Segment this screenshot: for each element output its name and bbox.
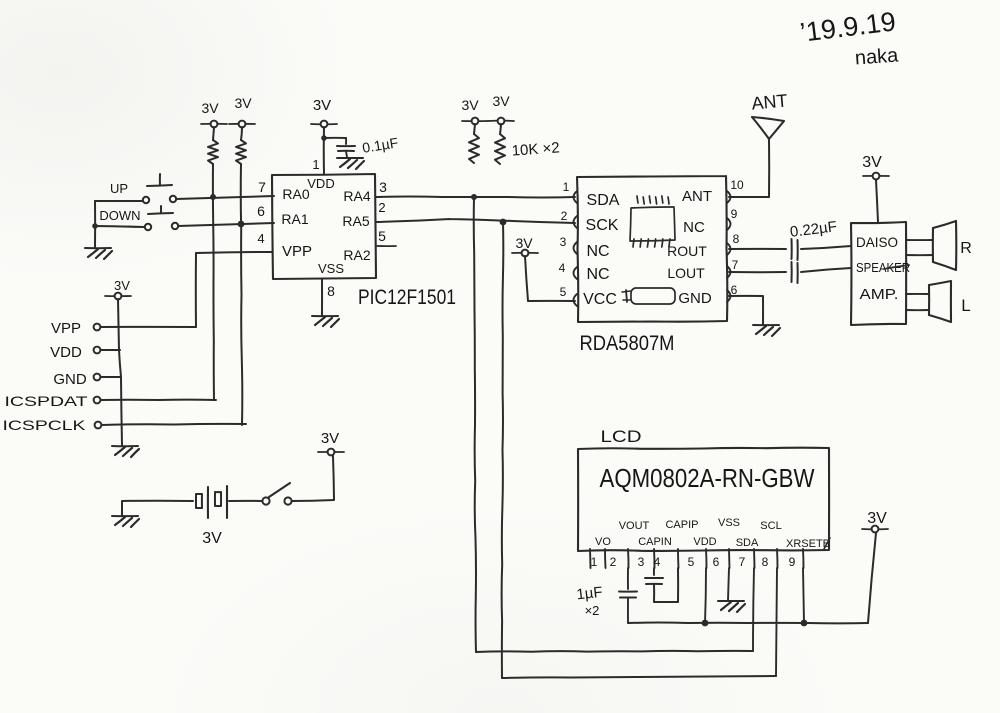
power 3V (SDA pull-up) bbox=[461, 97, 488, 124]
svg-text:6: 6 bbox=[257, 203, 265, 219]
ground U1 VSS bbox=[312, 316, 339, 327]
wire C2 to amp bbox=[801, 246, 851, 249]
svg-text:1: 1 bbox=[591, 555, 598, 569]
label LCD SDA bbox=[736, 537, 759, 549]
wire 3V rail riser bbox=[868, 533, 876, 623]
label U2 pin4 bbox=[559, 261, 566, 275]
svg-text:1: 1 bbox=[312, 157, 319, 172]
svg-text:5: 5 bbox=[560, 285, 567, 299]
svg-text:NC: NC bbox=[586, 266, 609, 283]
label U1 RA2 bbox=[343, 247, 370, 263]
svg-text:3V: 3V bbox=[202, 530, 222, 547]
wire 3V to R4 bbox=[500, 124, 501, 134]
resistor R2 pull-up RA1 bbox=[236, 140, 246, 164]
wire amp to speaker R a bbox=[906, 239, 933, 241]
label LCD pin3 bbox=[638, 555, 645, 569]
svg-text:4: 4 bbox=[257, 231, 264, 246]
sketch U2 lower box hatch bbox=[622, 290, 630, 302]
wire SCL horizontal bbox=[502, 676, 776, 678]
switch SW1 UP pushbutton bbox=[143, 174, 176, 203]
svg-text:naka: naka bbox=[854, 44, 900, 69]
wire left rail down bbox=[94, 201, 96, 247]
svg-text:3: 3 bbox=[638, 555, 645, 569]
wire LCD 3V rail bbox=[628, 622, 868, 625]
sketch U2 chip body bbox=[630, 207, 675, 241]
label U1 part number bbox=[358, 286, 456, 309]
capacitor C1 0.1uF bbox=[337, 138, 355, 157]
wire 3V rail down bbox=[118, 299, 122, 445]
label LCD CAPIP bbox=[665, 519, 698, 531]
power 3V (ICSP VDD) bbox=[105, 278, 131, 299]
svg-text:VPP: VPP bbox=[51, 320, 81, 337]
wire RA4 to RDA SDA bbox=[376, 196, 575, 199]
wire 3V to PIC pin1 bbox=[323, 127, 325, 174]
label amp SPEAKER bbox=[856, 260, 910, 275]
switch SW2 DOWN pushbutton bbox=[145, 206, 178, 230]
label U2 pin7 bbox=[732, 258, 739, 272]
svg-text:AMP.: AMP. bbox=[860, 286, 899, 303]
ground C1 bbox=[337, 158, 364, 169]
handwritten date bbox=[798, 6, 897, 47]
label LCD pin2 bbox=[610, 555, 617, 569]
power 3V (battery out) bbox=[318, 430, 344, 455]
svg-text:3V: 3V bbox=[313, 97, 331, 114]
wire 3V to amp bbox=[876, 180, 878, 222]
svg-text:ANT: ANT bbox=[751, 90, 789, 113]
label U1 pin3 bbox=[379, 179, 387, 195]
label LCD VOUT bbox=[619, 520, 650, 532]
label ANT bbox=[751, 90, 789, 113]
svg-text:UP: UP bbox=[110, 181, 128, 196]
label U1 VDD bbox=[307, 176, 334, 191]
label U2 ANT bbox=[682, 188, 712, 205]
op amp module body bbox=[851, 222, 906, 325]
wire to capacitor C1 bbox=[324, 137, 346, 139]
label U1 RA0 bbox=[282, 186, 309, 202]
svg-text:3: 3 bbox=[560, 235, 567, 249]
label LCD pin4 bbox=[654, 555, 661, 569]
svg-text:9: 9 bbox=[731, 207, 738, 221]
wire SDA bus vertical bbox=[474, 197, 476, 652]
wire ground to battery bbox=[122, 501, 193, 516]
wire U2 ROUT bbox=[729, 248, 786, 250]
wire battery to switch bbox=[229, 500, 262, 502]
pin ticks LCD bbox=[590, 549, 804, 568]
label U2 NC9 bbox=[683, 219, 705, 236]
wire C5 U loop bbox=[654, 568, 678, 602]
terminal GND bbox=[94, 374, 101, 381]
wire VPP riser bbox=[195, 253, 197, 327]
label C2 C3 0.22uF bbox=[789, 218, 838, 241]
label U2 LOUT bbox=[667, 265, 705, 281]
label LCD XRSETB bbox=[786, 538, 830, 550]
label U2 pin6 bbox=[731, 283, 738, 297]
wire 3V to R3 bbox=[474, 124, 475, 134]
label LCD VDD bbox=[693, 536, 716, 548]
wire LCD VOUT down bbox=[627, 568, 629, 589]
wire VPP to riser bbox=[101, 326, 196, 328]
terminal ICSPCLK bbox=[95, 422, 102, 429]
svg-text:XRSETB: XRSETB bbox=[786, 538, 830, 550]
wire C4 down bbox=[627, 598, 629, 623]
svg-text:PIC12F1501: PIC12F1501 bbox=[358, 286, 456, 309]
label U2 pin5 bbox=[560, 285, 567, 299]
svg-text:3V: 3V bbox=[234, 95, 252, 111]
wire amp to speaker L a bbox=[906, 293, 929, 295]
svg-text:VO: VO bbox=[595, 536, 611, 548]
label U1 pin4 bbox=[257, 231, 264, 246]
svg-text:10: 10 bbox=[730, 178, 744, 192]
pin hooks U2 right bbox=[727, 191, 731, 302]
label U2 pin2 bbox=[561, 209, 568, 223]
svg-text:VOUT: VOUT bbox=[619, 520, 650, 532]
wire LCD VDD down bbox=[705, 568, 706, 623]
op IC U1 PIC12F1501 body bbox=[272, 174, 376, 279]
svg-text:2: 2 bbox=[378, 200, 385, 215]
power 3V (RA1 pull-up) bbox=[229, 95, 255, 127]
svg-text:RDA5807M: RDA5807M bbox=[580, 332, 675, 355]
terminal ICSPDAT bbox=[94, 397, 101, 404]
svg-text:NC: NC bbox=[586, 243, 609, 260]
wire 3V to R2 bbox=[241, 127, 242, 140]
wire VPP to U1 pin4 bbox=[196, 252, 272, 253]
svg-text:3V: 3V bbox=[515, 235, 533, 251]
label amp AMP. bbox=[860, 286, 899, 303]
sketch U2 chip top ticks bbox=[637, 196, 669, 204]
label LCD part number bbox=[600, 463, 815, 493]
terminal VDD bbox=[94, 347, 101, 354]
power 3V (LCD) bbox=[862, 510, 888, 532]
wire UP left to corner bbox=[95, 200, 143, 202]
wire SCL bus vertical bbox=[502, 222, 504, 678]
capacitor C2 0.22uF ROUT bbox=[792, 239, 798, 260]
battery BT1 3V bbox=[196, 486, 227, 518]
label ICSPCLK bbox=[3, 417, 87, 433]
capacitor C5 1uF bbox=[645, 578, 663, 584]
label VPP bbox=[51, 320, 81, 337]
svg-text:’19.9.19: ’19.9.19 bbox=[798, 6, 897, 47]
svg-text:8: 8 bbox=[733, 232, 740, 246]
svg-text:7: 7 bbox=[739, 555, 746, 569]
svg-text:×2: ×2 bbox=[585, 603, 600, 618]
svg-text:SDA: SDA bbox=[736, 537, 759, 549]
svg-text:1µF: 1µF bbox=[576, 584, 604, 604]
label C4 C5 x2 bbox=[585, 603, 600, 618]
svg-text:0.22µF: 0.22µF bbox=[789, 218, 838, 241]
label U1 pin6 bbox=[257, 203, 265, 219]
resistor R3 SDA pull-up bbox=[469, 134, 479, 163]
wire UP to PIC RA0 bbox=[176, 196, 274, 199]
wire LCD CAPIN down bbox=[653, 568, 655, 575]
label R3 R4 10K x2 bbox=[511, 139, 560, 159]
power 3V (U2 VCC) bbox=[512, 235, 538, 256]
svg-text:ANT: ANT bbox=[682, 188, 712, 205]
svg-text:RA4: RA4 bbox=[343, 188, 370, 204]
wire 3V to R1 bbox=[213, 127, 214, 140]
svg-text:SCK: SCK bbox=[586, 217, 619, 234]
op IC U2 RDA5807M body bbox=[577, 176, 727, 322]
wire RA5 to RDA SCK bbox=[376, 219, 575, 223]
svg-text:RA1: RA1 bbox=[281, 211, 308, 227]
label C1 0.1uF bbox=[361, 134, 399, 155]
label U1 VPP bbox=[282, 243, 312, 260]
wire R2 to RA1 net / ICSPCLK bus bbox=[241, 164, 243, 425]
wire VDD to 3V rail bbox=[101, 349, 120, 351]
sketch U2 lower box bbox=[631, 288, 675, 304]
wire R1 to RA0 net / ICSPDAT bus bbox=[213, 164, 214, 400]
svg-text:VCC: VCC bbox=[583, 291, 617, 308]
svg-text:2: 2 bbox=[610, 555, 617, 569]
scribble LCD XRSETB bbox=[824, 538, 830, 549]
svg-text:7: 7 bbox=[732, 258, 739, 272]
op LCD module body bbox=[578, 448, 829, 551]
capacitor C4 1uF bbox=[619, 592, 637, 598]
svg-text:10K ×2: 10K ×2 bbox=[511, 139, 560, 159]
label U2 NC3 bbox=[586, 243, 609, 260]
speaker L bbox=[929, 281, 951, 322]
wire U2 GND pin6 bbox=[729, 296, 763, 324]
wire DOWN to PIC RA1 bbox=[178, 223, 274, 226]
svg-text:VDD: VDD bbox=[307, 176, 334, 191]
wire LCD VSS down bbox=[728, 568, 729, 600]
svg-text:7: 7 bbox=[258, 179, 266, 195]
svg-text:SCL: SCL bbox=[760, 520, 781, 532]
svg-text:3V: 3V bbox=[461, 97, 479, 113]
svg-text:R: R bbox=[960, 240, 972, 257]
wire U1 VSS to ground bbox=[321, 279, 323, 315]
label U1 pin8 bbox=[327, 283, 335, 299]
label U2 ROUT bbox=[667, 243, 707, 259]
wire amp to speaker R b bbox=[906, 254, 933, 256]
wire ICSPCLK bbox=[102, 424, 246, 425]
wire amp to speaker L b bbox=[906, 309, 929, 311]
junction SDA bus bbox=[471, 194, 477, 200]
wire LCD SDA down bbox=[753, 568, 754, 651]
wire switch to 3V riser bbox=[292, 456, 334, 501]
svg-text:6: 6 bbox=[731, 283, 738, 297]
ground LCD VSS bbox=[718, 601, 745, 612]
svg-text:6: 6 bbox=[713, 555, 720, 569]
label U1 pin1 bbox=[312, 157, 319, 172]
svg-text:AQM0802A-RN-GBW: AQM0802A-RN-GBW bbox=[600, 463, 815, 493]
svg-text:5: 5 bbox=[378, 228, 386, 244]
svg-text:LOUT: LOUT bbox=[667, 265, 705, 281]
junction VDD / C1 bbox=[321, 135, 327, 141]
wire ICSPDAT bbox=[101, 399, 216, 401]
svg-text:RA2: RA2 bbox=[343, 247, 370, 263]
label U1 pin5 bbox=[378, 228, 386, 244]
label U2 NC4 bbox=[586, 266, 609, 283]
label U2 GND bbox=[678, 290, 712, 307]
label U2 pin8 bbox=[733, 232, 740, 246]
wire 3V to VCC bbox=[525, 256, 575, 301]
label U2 part number bbox=[580, 332, 675, 355]
svg-text:RA5: RA5 bbox=[342, 213, 369, 229]
svg-text:3V: 3V bbox=[201, 100, 219, 116]
label U2 pin9 bbox=[731, 207, 738, 221]
label LCD SCL bbox=[760, 520, 781, 532]
junction SCL bus bbox=[500, 219, 507, 226]
label U1 pin7 bbox=[258, 179, 266, 195]
svg-text:3V: 3V bbox=[321, 430, 339, 447]
svg-text:ROUT: ROUT bbox=[667, 243, 707, 259]
label LCD pin8 bbox=[762, 555, 769, 569]
svg-text:4: 4 bbox=[654, 555, 661, 569]
label U2 pin10 bbox=[730, 178, 744, 192]
svg-text:VDD: VDD bbox=[50, 344, 82, 361]
label LCD VO bbox=[595, 536, 611, 548]
handwritten signature naka bbox=[854, 44, 900, 69]
capacitor C3 0.22uF LOUT bbox=[792, 262, 798, 283]
label speaker R bbox=[960, 240, 972, 257]
svg-text:ICSPCLK: ICSPCLK bbox=[3, 417, 87, 433]
svg-text:3V: 3V bbox=[867, 510, 887, 527]
resistor R4 SCL pull-up bbox=[495, 134, 505, 164]
label U1 VSS bbox=[318, 261, 344, 276]
label LCD CAPIN bbox=[638, 536, 672, 548]
label LCD pin5 bbox=[688, 555, 695, 569]
label amp DAISO bbox=[856, 234, 898, 250]
wire LCD XRSETB down bbox=[803, 568, 804, 623]
junction RA0 / ICSPDAT bbox=[210, 194, 216, 200]
junction RA1 / ICSPCLK bbox=[238, 221, 245, 228]
svg-text:DAISO: DAISO bbox=[856, 234, 898, 250]
label GND bbox=[53, 371, 87, 388]
svg-text:8: 8 bbox=[327, 283, 335, 299]
svg-text:5: 5 bbox=[688, 555, 695, 569]
ground battery bbox=[112, 516, 139, 527]
power 3V (RA0 pull-up) bbox=[201, 100, 227, 127]
svg-text:VPP: VPP bbox=[282, 243, 312, 260]
svg-text:CAPIN: CAPIN bbox=[638, 536, 672, 548]
label U2 SCK bbox=[586, 217, 619, 234]
power 3V (amp) bbox=[862, 154, 889, 179]
terminal VPP bbox=[94, 324, 101, 331]
wire DOWN left bbox=[95, 226, 144, 227]
switch SW3 power bbox=[262, 483, 291, 505]
svg-text:GND: GND bbox=[53, 371, 87, 388]
label U2 VCC bbox=[583, 291, 617, 308]
svg-text:RA0: RA0 bbox=[282, 186, 309, 202]
junction LCD XRSETB 3V rail bbox=[801, 620, 808, 627]
svg-text:3: 3 bbox=[379, 179, 387, 195]
svg-text:SPEAKER: SPEAKER bbox=[856, 260, 910, 275]
label speaker L bbox=[961, 296, 970, 315]
label LCD pin1 bbox=[591, 555, 598, 569]
wire SDA horizontal bbox=[476, 651, 753, 652]
switch SW1 UP label bbox=[110, 181, 128, 196]
svg-text:1: 1 bbox=[563, 180, 570, 194]
scribble amp SPEAKER bbox=[884, 265, 909, 269]
sketch U2 chip bottom ticks bbox=[633, 239, 670, 247]
resistor R1 pull-up RA0 bbox=[208, 140, 218, 164]
label LCD pin6 bbox=[713, 555, 720, 569]
label U2 SDA bbox=[587, 192, 620, 209]
label LCD VSS bbox=[718, 517, 740, 529]
label VDD bbox=[50, 344, 82, 361]
svg-text:VSS: VSS bbox=[318, 261, 344, 276]
svg-text:3V: 3V bbox=[492, 93, 510, 109]
junction buttons left rail bbox=[92, 223, 98, 229]
label U1 RA4 bbox=[343, 188, 370, 204]
svg-text:8: 8 bbox=[762, 555, 769, 569]
switch SW2 DOWN label bbox=[99, 208, 140, 223]
svg-text:VSS: VSS bbox=[718, 517, 740, 529]
svg-text:3V: 3V bbox=[114, 278, 130, 293]
label U1 pin2 bbox=[378, 200, 385, 215]
svg-text:CAPIP: CAPIP bbox=[665, 519, 698, 531]
ground U2 GND bbox=[753, 325, 780, 336]
label LCD bbox=[601, 427, 642, 446]
wire U2 ANT pin10 bbox=[729, 196, 769, 198]
antenna ANT triangle bbox=[752, 117, 784, 139]
power 3V (SCL pull-up) bbox=[488, 93, 514, 124]
svg-text:SDA: SDA bbox=[587, 192, 620, 209]
wire GND to rail bbox=[101, 376, 121, 378]
ground ICSP GND bbox=[112, 446, 139, 457]
svg-text:0.1µF: 0.1µF bbox=[361, 134, 399, 155]
svg-text:2: 2 bbox=[561, 209, 568, 223]
junction LCD VDD 3V rail bbox=[702, 620, 709, 627]
ground buttons bbox=[85, 248, 112, 259]
svg-text:4: 4 bbox=[559, 261, 566, 275]
label U1 RA5 bbox=[342, 213, 369, 229]
wire U2 LOUT bbox=[729, 271, 786, 273]
antenna ANT stem bbox=[768, 139, 770, 197]
pin stub U1 RA2 bbox=[377, 245, 396, 247]
label ICSPDAT bbox=[5, 393, 89, 409]
label battery 3V bbox=[202, 530, 222, 547]
svg-text:LCD: LCD bbox=[601, 427, 642, 446]
label U1 RA1 bbox=[281, 211, 308, 227]
wire LCD SCL down bbox=[776, 568, 777, 676]
power 3V (PIC VDD) bbox=[311, 97, 337, 127]
label U2 pin3 bbox=[560, 235, 567, 249]
wire C3 to amp bbox=[801, 268, 851, 272]
label U2 pin1 bbox=[563, 180, 570, 194]
svg-text:VDD: VDD bbox=[693, 536, 716, 548]
svg-text:NC: NC bbox=[683, 219, 705, 236]
svg-text:ICSPDAT: ICSPDAT bbox=[5, 393, 89, 409]
svg-text:3V: 3V bbox=[862, 154, 882, 171]
label LCD pin9 bbox=[789, 555, 796, 569]
pin hooks U2 left bbox=[574, 191, 578, 306]
label C4 C5 1uF bbox=[576, 584, 604, 604]
svg-text:DOWN: DOWN bbox=[99, 208, 140, 223]
label LCD pin7 bbox=[739, 555, 746, 569]
speaker R bbox=[933, 221, 956, 270]
svg-text:GND: GND bbox=[678, 290, 712, 307]
svg-text:L: L bbox=[961, 296, 970, 315]
svg-text:9: 9 bbox=[789, 555, 796, 569]
